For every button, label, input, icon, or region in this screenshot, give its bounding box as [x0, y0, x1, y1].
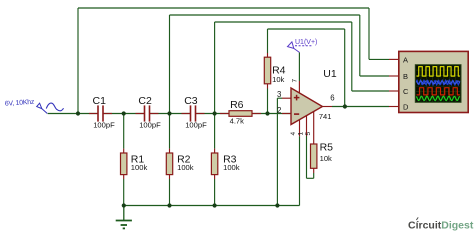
svg-text:100k: 100k	[177, 163, 194, 172]
svg-text:100pF: 100pF	[139, 121, 161, 130]
svg-text:6V, 10Khz: 6V, 10Khz	[5, 99, 36, 108]
svg-text:R6: R6	[230, 99, 244, 111]
svg-text:5: 5	[305, 132, 312, 136]
svg-text:U1(V+): U1(V+)	[295, 39, 317, 46]
svg-text:C1: C1	[93, 95, 107, 107]
svg-text:CírcuitDigest: CírcuitDigest	[408, 219, 474, 231]
svg-text:100pF: 100pF	[185, 121, 207, 130]
svg-text:2: 2	[277, 106, 281, 115]
svg-text:100pF: 100pF	[93, 121, 115, 130]
svg-text:C: C	[403, 87, 409, 96]
svg-text:100k: 100k	[131, 163, 148, 172]
svg-text:A: A	[403, 55, 408, 64]
svg-text:D: D	[403, 102, 409, 111]
svg-text:4.7k: 4.7k	[230, 116, 245, 125]
svg-text:7: 7	[291, 79, 298, 83]
svg-text:B: B	[403, 72, 408, 81]
svg-text:10k: 10k	[272, 75, 284, 84]
svg-text:4: 4	[290, 132, 297, 136]
svg-text:10k: 10k	[320, 154, 332, 163]
svg-text:3: 3	[277, 90, 281, 99]
svg-text:R5: R5	[320, 142, 334, 154]
svg-text:U1: U1	[323, 68, 337, 80]
svg-text:741: 741	[319, 112, 332, 121]
svg-text:C2: C2	[138, 95, 152, 107]
svg-text:6: 6	[330, 94, 334, 103]
svg-text:C3: C3	[184, 95, 198, 107]
svg-text:100k: 100k	[223, 163, 240, 172]
svg-text:1: 1	[298, 132, 305, 136]
